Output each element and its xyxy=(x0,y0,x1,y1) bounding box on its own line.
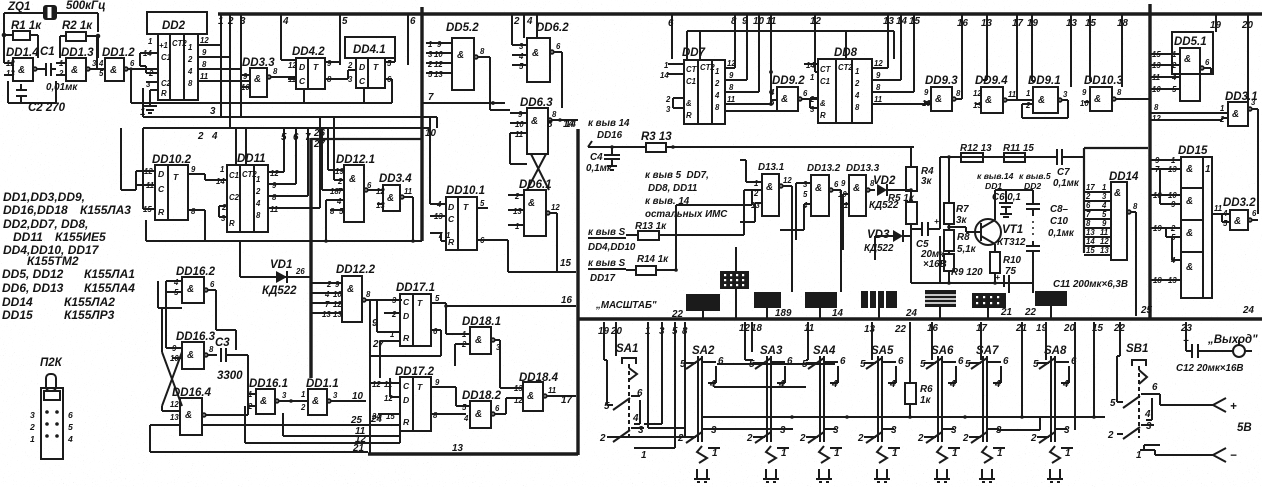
wire left edge of DD17 box xyxy=(369,301,371,453)
gate DD13.2 xyxy=(780,163,841,292)
capacitor C3 xyxy=(215,337,248,382)
svg-text:10: 10 xyxy=(333,290,342,299)
wire bottom left pin lines xyxy=(202,406,400,454)
flip-flop DD4.1 xyxy=(345,37,395,103)
switch SA5 xyxy=(857,345,904,459)
svg-text:&: & xyxy=(110,65,117,76)
svg-text:к выв.5: к выв.5 xyxy=(1019,171,1051,181)
svg-text:19: 19 xyxy=(335,167,344,176)
svg-text:1: 1 xyxy=(218,16,223,27)
black label blob 4 xyxy=(805,292,837,308)
flip-flop DD17.1 xyxy=(370,282,446,356)
svg-text:1: 1 xyxy=(1102,183,1106,192)
gate DD12.2 xyxy=(311,264,402,322)
svg-text:DD16: DD16 xyxy=(597,130,623,141)
svg-text:&: & xyxy=(1234,216,1241,227)
switch SB1 xyxy=(1107,343,1160,461)
svg-text:4: 4 xyxy=(714,91,720,100)
svg-text:1: 1 xyxy=(220,165,224,174)
svg-text:&: & xyxy=(1186,262,1193,273)
svg-text:8: 8 xyxy=(956,89,961,98)
svg-text:&: & xyxy=(1186,228,1193,239)
svg-text:2: 2 xyxy=(29,422,35,432)
svg-text:4: 4 xyxy=(778,379,785,390)
svg-text:1: 1 xyxy=(810,73,814,82)
wire DD1.2 feedback xyxy=(131,69,304,103)
svg-text:4: 4 xyxy=(889,379,896,390)
svg-text:5: 5 xyxy=(1110,398,1116,409)
svg-text:C: C xyxy=(403,381,410,391)
svg-text:8: 8 xyxy=(1133,202,1138,211)
svg-text:4: 4 xyxy=(98,59,104,68)
svg-text:5: 5 xyxy=(342,16,348,27)
ground SA2 xyxy=(694,446,710,482)
svg-text:CT2: CT2 xyxy=(838,63,853,72)
svg-text:5: 5 xyxy=(1223,219,1228,228)
svg-text:C: C xyxy=(448,214,455,224)
svg-text:2: 2 xyxy=(255,187,261,196)
wire y272 to divider xyxy=(508,271,576,273)
svg-text:6: 6 xyxy=(840,356,846,367)
capacitor C11 xyxy=(995,272,1128,290)
svg-text:R7: R7 xyxy=(956,204,969,215)
svg-text:T: T xyxy=(463,202,469,212)
svg-text:1: 1 xyxy=(641,450,646,461)
svg-text:5,1к: 5,1к xyxy=(957,244,977,255)
svg-text:2: 2 xyxy=(427,60,433,69)
wire top bus xyxy=(218,12,1262,15)
svg-text:6: 6 xyxy=(210,280,215,289)
capacitor C6 xyxy=(992,190,1021,217)
diode VD1 xyxy=(240,241,311,297)
svg-text:1: 1 xyxy=(301,390,305,399)
svg-text:2: 2 xyxy=(513,16,520,27)
gate DD15 xyxy=(1150,145,1222,298)
svg-text:2: 2 xyxy=(227,16,234,27)
switch SA6 xyxy=(917,345,964,459)
svg-text:7: 7 xyxy=(1086,210,1091,219)
ground SA3 xyxy=(763,446,779,482)
svg-text:&: & xyxy=(1114,188,1121,199)
svg-text:20: 20 xyxy=(1063,323,1075,334)
svg-text:+1: +1 xyxy=(159,41,168,50)
svg-text:4: 4 xyxy=(949,379,956,390)
svg-text:2: 2 xyxy=(714,79,720,88)
svg-text:1: 1 xyxy=(855,67,859,76)
svg-text:10: 10 xyxy=(922,99,931,108)
wire thick vertical divider mid-left xyxy=(309,138,312,378)
svg-text:DD7: DD7 xyxy=(682,47,706,59)
svg-text:8: 8 xyxy=(366,290,371,299)
wire DD2 outputs xyxy=(198,36,250,81)
wire bus line 2-4 xyxy=(143,45,430,128)
svg-text:5: 5 xyxy=(1033,359,1039,370)
svg-text:6: 6 xyxy=(367,181,372,190)
svg-text:12: 12 xyxy=(372,380,381,389)
svg-text:&: & xyxy=(475,335,482,346)
svg-text:&: & xyxy=(312,396,319,407)
svg-text:1: 1 xyxy=(30,434,35,444)
wire thick horizontal y139 xyxy=(311,138,421,140)
svg-text:0,1мк: 0,1мк xyxy=(1048,228,1075,239)
gate DD18.2 xyxy=(456,390,523,428)
svg-text:6: 6 xyxy=(495,404,500,413)
svg-text:9: 9 xyxy=(437,40,442,49)
svg-text:&: & xyxy=(260,396,267,407)
svg-text:К155ЛР3: К155ЛР3 xyxy=(64,308,115,322)
svg-text:4: 4 xyxy=(463,414,469,423)
svg-text:10: 10 xyxy=(434,50,443,59)
svg-text:D: D xyxy=(299,62,305,72)
svg-text:DD4,DD10: DD4,DD10 xyxy=(588,242,636,253)
svg-text:13: 13 xyxy=(973,101,982,110)
svg-text:11: 11 xyxy=(548,386,556,395)
svg-text:7: 7 xyxy=(305,132,311,143)
svg-text:12: 12 xyxy=(434,60,443,69)
svg-text:4: 4 xyxy=(1101,201,1107,210)
svg-text:5: 5 xyxy=(480,199,485,208)
svg-text:D13.1: D13.1 xyxy=(758,162,784,173)
svg-text:+: + xyxy=(995,272,1000,282)
svg-text:T: T xyxy=(417,298,423,308)
svg-text:26: 26 xyxy=(313,128,325,139)
svg-text:DD5, DD12: DD5, DD12 xyxy=(2,267,64,281)
svg-text:9: 9 xyxy=(335,280,340,289)
svg-text:C: C xyxy=(158,184,165,194)
note к выв 5 DD7 xyxy=(645,170,728,220)
svg-text:5: 5 xyxy=(68,422,73,432)
wire DD14 frame top xyxy=(1084,147,1148,149)
wire feedback y103 xyxy=(133,60,392,103)
svg-text:6: 6 xyxy=(718,356,724,367)
svg-text:11: 11 xyxy=(766,16,776,27)
svg-text:&: & xyxy=(1232,109,1239,120)
svg-text:6: 6 xyxy=(637,388,643,399)
svg-text:&: & xyxy=(985,95,992,106)
svg-text:C2: C2 xyxy=(229,193,240,202)
svg-text:12: 12 xyxy=(810,16,821,27)
svg-text:&: & xyxy=(254,74,261,85)
svg-text:1: 1 xyxy=(188,43,192,52)
svg-text:К155ЛА1: К155ЛА1 xyxy=(84,267,135,281)
svg-text:2: 2 xyxy=(1085,192,1091,201)
gate DD3.1 xyxy=(1150,91,1258,214)
gate DD9.2 xyxy=(769,75,818,111)
svg-text:DD10.3: DD10.3 xyxy=(1084,75,1124,87)
svg-text:24: 24 xyxy=(370,414,382,425)
resistor R11 xyxy=(1003,143,1034,162)
svg-text:4: 4 xyxy=(255,199,261,208)
wire thick vertical divider left xyxy=(420,7,423,241)
svg-text:&: & xyxy=(527,391,534,402)
svg-text:&: & xyxy=(935,94,942,105)
svg-text:4: 4 xyxy=(282,16,289,27)
wire tick 1 xyxy=(220,14,222,45)
svg-text:+: + xyxy=(934,216,939,226)
svg-text:SA1: SA1 xyxy=(616,343,638,355)
svg-text:9: 9 xyxy=(243,72,248,81)
svg-text:DD6.2: DD6.2 xyxy=(536,22,569,34)
resistor R14 xyxy=(588,190,762,284)
svg-text:8: 8 xyxy=(855,103,860,112)
wire switch interconnects xyxy=(648,364,1105,430)
svg-text:к выв.14: к выв.14 xyxy=(977,171,1014,181)
svg-text:DD5.2: DD5.2 xyxy=(446,22,479,34)
flip-flop DD10.2 xyxy=(136,128,227,241)
svg-text:5: 5 xyxy=(1102,210,1107,219)
capacitor C4 xyxy=(586,147,620,174)
svg-text:9: 9 xyxy=(742,16,748,27)
svg-text:5: 5 xyxy=(803,190,808,199)
wire DD16 cross xyxy=(158,281,182,411)
svg-text:2: 2 xyxy=(1025,101,1031,110)
svg-text:2: 2 xyxy=(391,310,397,319)
svg-text:C7: C7 xyxy=(1057,167,1070,178)
black label blob 6 lined xyxy=(925,290,956,307)
svg-text:SA2: SA2 xyxy=(692,345,715,357)
svg-text:12: 12 xyxy=(200,36,209,45)
svg-text:10: 10 xyxy=(753,16,764,27)
svg-text:21: 21 xyxy=(1000,307,1012,318)
svg-text:&: & xyxy=(1186,196,1193,207)
svg-text:1: 1 xyxy=(715,67,719,76)
svg-text:9: 9 xyxy=(435,378,440,387)
gate DD3.2 xyxy=(1222,197,1258,230)
wire R12 row xyxy=(940,156,1054,158)
svg-text:8: 8 xyxy=(273,67,278,76)
gate DD1.3 xyxy=(56,36,104,81)
svg-text:2: 2 xyxy=(514,192,520,201)
svg-text:КТ312: КТ312 xyxy=(997,237,1026,248)
svg-text:к выв S: к выв S xyxy=(588,258,626,269)
svg-text:4: 4 xyxy=(324,290,330,299)
note к выв 14 DD16 xyxy=(588,118,630,147)
svg-text:R: R xyxy=(403,417,410,427)
svg-text:2: 2 xyxy=(187,55,193,64)
flip-flop DD17.2 xyxy=(370,366,466,431)
svg-text:3: 3 xyxy=(891,425,897,436)
connector П2К xyxy=(29,357,73,459)
ground SA6 xyxy=(934,446,950,482)
svg-text:5: 5 xyxy=(462,403,467,412)
svg-text:8: 8 xyxy=(729,83,734,92)
svg-text:5: 5 xyxy=(428,70,433,79)
svg-text:C3: C3 xyxy=(215,337,230,349)
svg-text:3: 3 xyxy=(333,391,338,400)
terminal minus xyxy=(1213,448,1237,462)
svg-text:DD16,DD18: DD16,DD18 xyxy=(3,203,68,217)
svg-text:&: & xyxy=(1184,54,1191,65)
svg-text:&: & xyxy=(387,193,394,204)
svg-text:R3 13: R3 13 xyxy=(641,131,672,143)
svg-text:11: 11 xyxy=(1008,90,1016,99)
svg-text:1: 1 xyxy=(1220,104,1224,113)
svg-text:к выв S: к выв S xyxy=(588,227,626,238)
svg-text:C1: C1 xyxy=(686,77,696,86)
svg-text:DD12.2: DD12.2 xyxy=(336,264,376,276)
svg-text:11: 11 xyxy=(840,201,848,210)
resistor R2 xyxy=(60,20,98,58)
svg-text:21: 21 xyxy=(1015,323,1027,334)
svg-text:&: & xyxy=(1186,164,1193,175)
svg-text:13: 13 xyxy=(322,310,331,319)
svg-text:3: 3 xyxy=(496,343,501,352)
wire tick 4 xyxy=(280,14,282,60)
diode VD2 xyxy=(869,175,911,211)
note к выв.5 DD2 xyxy=(1019,171,1051,191)
svg-text:10: 10 xyxy=(352,391,363,402)
svg-text:R2 1к: R2 1к xyxy=(62,20,93,32)
svg-text:1: 1 xyxy=(781,448,786,459)
svg-text:18: 18 xyxy=(775,308,786,319)
svg-text:VT1: VT1 xyxy=(1002,224,1023,236)
svg-text:3: 3 xyxy=(392,296,397,305)
svg-text:11: 11 xyxy=(200,72,208,81)
svg-text:2: 2 xyxy=(677,433,684,444)
svg-text:2: 2 xyxy=(917,433,924,444)
wire DD6 cross xyxy=(490,110,549,190)
svg-text:SA7: SA7 xyxy=(976,345,999,357)
resistor R9 xyxy=(944,251,983,283)
wire drops to DD12.1 xyxy=(236,117,344,241)
svg-text:9: 9 xyxy=(876,71,881,80)
svg-text:2: 2 xyxy=(753,189,759,198)
gate DD18.4 xyxy=(514,372,576,411)
svg-text:22: 22 xyxy=(1024,307,1036,318)
svg-text:DD13.3: DD13.3 xyxy=(846,163,880,174)
svg-text:2: 2 xyxy=(326,280,332,289)
switch SA8 xyxy=(1030,345,1077,459)
svg-text:&: & xyxy=(686,99,692,108)
svg-text:1: 1 xyxy=(952,448,957,459)
svg-text:27: 27 xyxy=(313,139,325,150)
svg-text:SA4: SA4 xyxy=(813,345,836,357)
gate DD1.1 xyxy=(300,378,366,415)
switch SA2 xyxy=(677,345,724,459)
svg-text:&: & xyxy=(532,48,539,59)
svg-text:13: 13 xyxy=(6,69,15,78)
wire DD11 outputs xyxy=(268,117,320,214)
svg-text:12: 12 xyxy=(514,396,523,405)
svg-text:DD9.3: DD9.3 xyxy=(925,75,958,87)
svg-text:2: 2 xyxy=(337,177,343,186)
wire thick bottom of DD17 box xyxy=(368,452,578,455)
wire analog ground row xyxy=(911,236,1033,283)
svg-text:21: 21 xyxy=(352,443,364,454)
svg-text:12: 12 xyxy=(551,203,560,212)
svg-text:0,01мк: 0,01мк xyxy=(46,82,78,93)
gate DD5.1 xyxy=(1150,32,1213,101)
svg-text:6: 6 xyxy=(1003,356,1009,367)
svg-text:16: 16 xyxy=(561,295,572,306)
svg-text:4: 4 xyxy=(336,197,342,206)
black label blob 8 xyxy=(1035,291,1067,306)
svg-text:1: 1 xyxy=(446,231,450,240)
svg-text:7: 7 xyxy=(338,187,343,196)
svg-text:R: R xyxy=(158,207,165,217)
gate DD3.3 xyxy=(241,57,296,97)
svg-text:5: 5 xyxy=(339,207,344,216)
wire tick 12 xyxy=(815,14,818,72)
svg-text:T: T xyxy=(173,172,179,182)
wire SA1 drops xyxy=(604,322,685,448)
svg-text:1: 1 xyxy=(1136,450,1141,461)
gate DD9.3 xyxy=(922,75,962,111)
svg-text:5: 5 xyxy=(519,62,524,71)
svg-text:4: 4 xyxy=(211,131,218,142)
svg-text:D: D xyxy=(403,395,409,405)
svg-text:&: & xyxy=(853,183,860,194)
svg-text:DD5.1: DD5.1 xyxy=(1174,36,1207,48)
svg-text:4: 4 xyxy=(854,91,860,100)
svg-text:КД522: КД522 xyxy=(864,243,894,254)
svg-text:8: 8 xyxy=(256,211,261,220)
svg-text:CT2: CT2 xyxy=(172,39,187,48)
svg-text:К155ЛА4: К155ЛА4 xyxy=(84,281,135,295)
svg-text:3: 3 xyxy=(1064,425,1070,436)
svg-text:DD9.1: DD9.1 xyxy=(1028,75,1061,87)
svg-text:3: 3 xyxy=(1063,90,1068,99)
svg-text:500кГц: 500кГц xyxy=(66,0,106,12)
svg-text:9: 9 xyxy=(1082,88,1087,97)
resistor R3 xyxy=(588,131,914,152)
svg-text:C1: C1 xyxy=(820,77,830,86)
svg-text:75: 75 xyxy=(1005,266,1016,277)
svg-text:&: & xyxy=(349,174,356,185)
terminal plus xyxy=(1213,398,1237,413)
gate DD6.3 xyxy=(510,97,578,154)
black label blob 7 dotted xyxy=(972,293,1006,308)
svg-text:ZQ1: ZQ1 xyxy=(7,1,30,13)
svg-text:13: 13 xyxy=(864,324,875,335)
svg-text:9: 9 xyxy=(272,181,277,190)
svg-text:3: 3 xyxy=(833,425,839,436)
svg-text:−: − xyxy=(1230,450,1237,462)
svg-text:14: 14 xyxy=(660,71,669,80)
svg-text:12: 12 xyxy=(288,61,297,70)
svg-text:14: 14 xyxy=(563,119,574,130)
svg-text:SB1: SB1 xyxy=(1126,343,1148,355)
svg-text:5: 5 xyxy=(860,359,866,370)
svg-text:С11 200мк×6,3В: С11 200мк×6,3В xyxy=(1053,279,1128,290)
svg-text:&: & xyxy=(820,99,826,108)
wire DD17.1 out to 16 xyxy=(446,305,576,307)
flip-flop DD4.2 xyxy=(288,46,356,89)
svg-text:6: 6 xyxy=(1205,58,1210,67)
svg-text:DD11: DD11 xyxy=(13,230,43,244)
svg-text:9: 9 xyxy=(924,88,929,97)
svg-text:12: 12 xyxy=(1100,237,1109,246)
svg-text:3: 3 xyxy=(221,214,226,223)
svg-text:3: 3 xyxy=(951,425,957,436)
svg-text:1: 1 xyxy=(997,448,1002,459)
svg-text:2: 2 xyxy=(599,433,606,444)
svg-text:18: 18 xyxy=(330,187,339,196)
svg-text:10: 10 xyxy=(425,128,436,139)
svg-text:4: 4 xyxy=(831,379,838,390)
svg-text:DD11: DD11 xyxy=(237,153,266,165)
capacitor C2 xyxy=(8,81,66,114)
svg-text:13: 13 xyxy=(1100,246,1109,255)
svg-text:T: T xyxy=(417,382,423,392)
ground under DD2 xyxy=(143,90,158,113)
svg-text:15: 15 xyxy=(560,258,571,269)
ground SA7 xyxy=(979,446,995,482)
svg-text:12: 12 xyxy=(874,59,883,68)
switch SA7 xyxy=(962,345,1009,459)
svg-text:К155ИЕ5: К155ИЕ5 xyxy=(55,230,106,244)
svg-text:SA8: SA8 xyxy=(1044,345,1067,357)
